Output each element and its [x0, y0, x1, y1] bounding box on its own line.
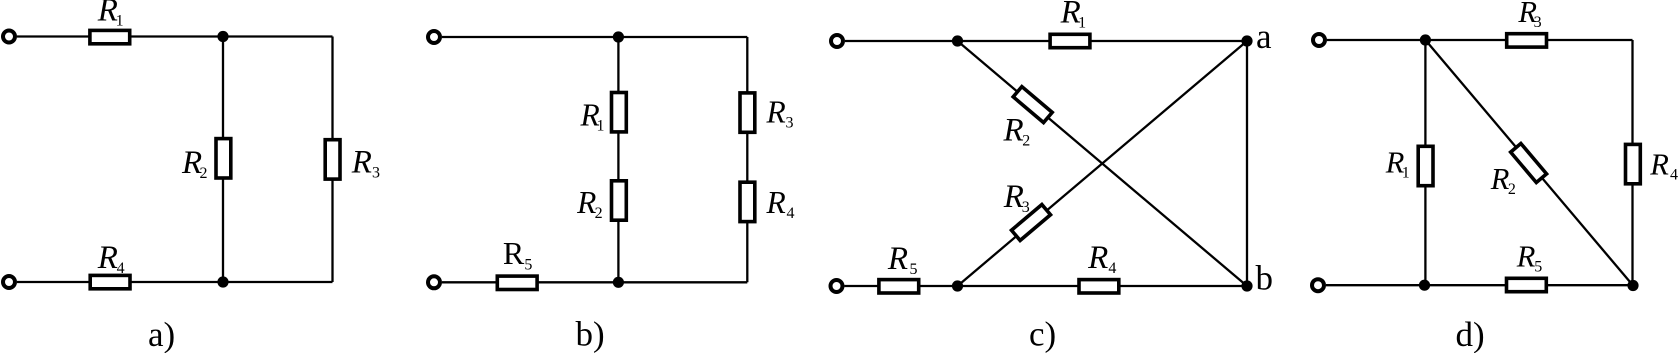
svg-text:R: R — [887, 241, 908, 277]
resistor R5 — [497, 276, 537, 289]
svg-text:3: 3 — [1022, 199, 1030, 216]
svg-text:R: R — [1649, 147, 1669, 181]
wire: d diagonal branch — [1425, 40, 1633, 286]
svg-text:3: 3 — [1534, 14, 1542, 31]
resistor R2 — [1013, 87, 1052, 123]
svg-text:2: 2 — [1508, 181, 1516, 198]
svg-text:c): c) — [1029, 315, 1056, 353]
svg-text:R: R — [503, 235, 525, 271]
junction: c bottom-left node — [952, 280, 963, 291]
terminal: d top-left input — [1313, 34, 1325, 46]
svg-text:5: 5 — [524, 256, 532, 273]
junction: d bottom-right node — [1627, 280, 1638, 291]
svg-text:1: 1 — [1078, 15, 1086, 32]
terminal: a bottom-left input — [3, 276, 15, 288]
svg-text:a): a) — [148, 315, 175, 353]
junction: a top node — [217, 31, 228, 42]
node b — [1241, 280, 1252, 291]
wire: c right edge a to b — [1246, 41, 1248, 286]
resistor R5 — [1507, 278, 1547, 291]
svg-text:4: 4 — [1670, 166, 1678, 183]
svg-text:1: 1 — [1402, 164, 1410, 181]
resistor R4 — [90, 275, 130, 288]
terminal: b top-left input — [428, 31, 440, 43]
resistor R1 — [612, 93, 627, 132]
resistor R2 — [1511, 143, 1547, 182]
resistor R4 — [1626, 144, 1641, 183]
svg-text:R: R — [1087, 240, 1108, 276]
resistor R4 — [1079, 280, 1119, 293]
resistor R3 — [1507, 34, 1547, 47]
wire: b right branch — [746, 37, 748, 282]
svg-text:2: 2 — [1022, 133, 1030, 150]
wire: d bottom rail — [1326, 284, 1633, 286]
wire: c bottom rail — [845, 285, 1248, 287]
terminal: d bottom-left input — [1312, 279, 1324, 291]
wire: b middle branch — [617, 37, 619, 282]
resistor R2 — [612, 181, 627, 220]
resistor R1 — [1418, 146, 1433, 185]
node a — [1241, 35, 1252, 46]
resistor R4 — [740, 182, 755, 221]
svg-text:5: 5 — [910, 261, 918, 278]
junction: d bottom-left node — [1419, 280, 1430, 291]
junction: c top-left node — [952, 35, 963, 46]
terminal: c top-left input — [831, 35, 843, 47]
wire: d top rail — [1327, 39, 1633, 41]
svg-text:b: b — [1256, 259, 1274, 298]
svg-text:b): b) — [576, 315, 605, 353]
wire: a top rail — [17, 35, 333, 37]
svg-text:R: R — [1003, 113, 1024, 149]
wire: d middle branch — [1424, 40, 1426, 285]
svg-text:3: 3 — [372, 165, 380, 182]
svg-text:R: R — [351, 145, 372, 181]
resistor R3 — [1011, 205, 1050, 241]
svg-text:2: 2 — [200, 165, 208, 182]
svg-text:4: 4 — [1108, 260, 1116, 277]
svg-text:1: 1 — [116, 13, 124, 30]
resistor R2 — [216, 139, 231, 178]
wire: c top rail — [845, 40, 1247, 42]
svg-text:1: 1 — [597, 117, 605, 134]
svg-text:d): d) — [1456, 315, 1485, 353]
svg-text:a: a — [1256, 17, 1272, 56]
svg-text:3: 3 — [786, 114, 794, 131]
wire: c diagonal to node b — [958, 41, 1248, 286]
terminal: a top-left input — [3, 31, 15, 43]
wire: d right branch — [1631, 40, 1633, 286]
svg-text:R: R — [97, 240, 118, 276]
junction: b top node — [613, 31, 624, 42]
wire: b bottom rail — [442, 281, 747, 283]
wire: b top rail — [442, 36, 747, 38]
junction: a bottom node — [217, 276, 228, 287]
svg-text:4: 4 — [117, 260, 125, 277]
wire: c diagonal to node a — [958, 41, 1248, 286]
svg-text:2: 2 — [595, 205, 603, 222]
svg-text:R: R — [1516, 240, 1536, 274]
terminal: c bottom-left input — [831, 280, 843, 292]
resistor R1 — [90, 30, 130, 43]
svg-text:R: R — [1003, 179, 1024, 215]
resistor R1 — [1050, 34, 1090, 47]
svg-text:5: 5 — [1534, 259, 1542, 276]
junction: d top node — [1420, 34, 1431, 45]
svg-text:R: R — [576, 185, 596, 220]
wire: a middle branch — [222, 37, 224, 283]
terminal: b bottom-left input — [428, 276, 440, 288]
junction: b bottom node — [613, 277, 624, 288]
svg-text:R: R — [766, 185, 786, 220]
svg-text:R: R — [1490, 162, 1510, 196]
wire: a bottom rail — [17, 281, 333, 283]
svg-text:4: 4 — [787, 205, 795, 222]
wire: a right branch — [331, 37, 333, 283]
resistor R5 — [879, 280, 919, 293]
svg-text:R: R — [766, 94, 786, 129]
resistor R3 — [740, 93, 755, 132]
resistor R3 — [325, 140, 340, 179]
